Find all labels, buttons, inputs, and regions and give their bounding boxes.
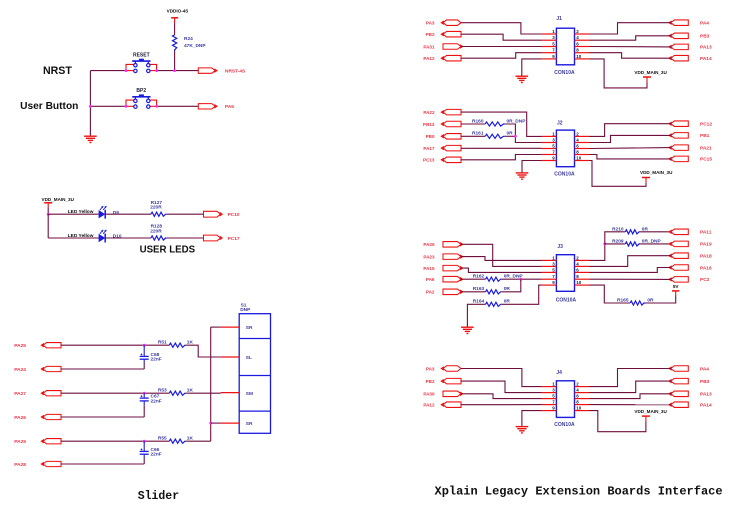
node C67 junction [143,392,146,395]
svg-text:SR: SR [246,325,253,331]
wire C68 to PA24 row [143,363,145,370]
connector J1 pins [542,29,590,59]
svg-text:PA4: PA4 [700,21,709,27]
power symbol 5V [672,284,679,296]
svg-text:PA17: PA17 [423,146,435,151]
svg-text:PA3: PA3 [426,21,435,26]
port PA20 [443,242,463,248]
wire R127 to PC10 [167,213,204,215]
wire PA3 to pin1 (J4) [461,369,542,387]
svg-text:PB13: PB13 [423,122,435,127]
wire PA25 row [61,344,169,346]
resistor R55 [158,436,194,444]
svg-text:PC10: PC10 [228,212,240,218]
node NRST junction [173,69,176,72]
wire pin4 to PB3 (J4) [590,381,671,393]
port PB0 [441,134,461,140]
wire pin9 to ground (J1) [522,59,542,76]
port PB13 [441,121,461,127]
wire pin9 to ground (J2) [522,161,542,173]
wire pin4 to PA18 [590,256,671,267]
connector J1 body [556,28,574,65]
svg-text:SR: SR [246,421,253,427]
resistor R210 [612,226,648,234]
wire pin8 to PA14 (J4) [590,404,671,406]
wire PC13 to pin7 [461,155,542,160]
port PA23 [443,254,463,260]
wire pin6 to PA16 [590,268,671,273]
slider S1 pin stubs [221,327,240,423]
connector J2 pins [542,131,590,160]
port PA12 [441,402,461,408]
svg-text:47K_DNP: 47K_DNP [184,43,206,49]
node user-button junction [89,105,92,108]
wire PB13 to R160 [461,123,485,125]
wire pin8 to PC2 [590,278,671,280]
svg-text:VDD_MAIN_3U: VDD_MAIN_3U [634,409,667,414]
svg-text:Slider: Slider [138,490,180,503]
svg-text:PA3: PA3 [426,366,435,371]
connector J4 pins [542,382,590,411]
svg-text:VDDIO-4S: VDDIO-4S [167,8,189,13]
svg-text:R53: R53 [158,388,167,394]
wire C66 to PA28 row [143,458,145,464]
port PA14 [669,55,688,61]
svg-text:PA16: PA16 [700,265,712,271]
resistor R163 [473,286,511,294]
port PB1 [669,133,688,139]
wire PA2 to R163 [461,291,486,293]
node SR junction [209,422,212,425]
wire left vertical to ground [89,71,91,137]
port PA27 [41,391,61,396]
svg-text:PA12: PA12 [423,403,435,408]
resistor R128 [150,224,167,241]
svg-text:R162: R162 [473,274,485,280]
svg-text:PA23: PA23 [423,254,435,259]
wire pin2 to PA4 [590,23,671,34]
port PB3 [669,378,688,384]
resistor R209 [612,238,661,246]
port PA16 [669,265,688,271]
node LED junction [47,213,50,216]
svg-text:22nF: 22nF [151,398,162,404]
wire PA23 to pin1 [461,257,542,261]
svg-text:SL: SL [246,355,252,361]
svg-text:PA13: PA13 [700,45,712,51]
wire PA12 to pin7 [461,53,542,59]
wire R161 to junction [505,135,516,137]
node C68 junction [143,344,146,347]
wire LED row 2 [48,237,98,239]
node R160/R161 junction [514,135,517,138]
svg-text:R164: R164 [473,299,485,305]
svg-text:PC12: PC12 [700,122,712,128]
wire PA27 row [61,392,169,394]
resistor R24 [173,35,207,51]
wire pin2 to PA4 (J4) [590,369,671,387]
svg-text:CON10A: CON10A [554,70,575,76]
connector J2 body [556,130,574,167]
wire PA3 to pin1 [461,23,542,34]
wire NRST row [90,70,126,72]
svg-text:PC13: PC13 [423,158,435,163]
port PA6 [443,276,463,282]
svg-text:PC2: PC2 [700,277,710,283]
port PA13 [669,44,688,50]
port PA21 [669,145,688,151]
port PB2 [441,31,461,37]
svg-text:PB3: PB3 [700,379,710,385]
port PA3 [441,20,461,26]
svg-text:PA31: PA31 [423,44,435,49]
ground NRST section [84,135,97,137]
port PA22 [441,109,461,115]
connector J3 body [556,255,574,292]
svg-text:PA4: PA4 [700,366,709,372]
port PC13 [441,157,461,163]
svg-text:LED Yellow: LED Yellow [68,209,94,215]
svg-text:PA29: PA29 [14,439,26,445]
push button RESET [126,52,157,72]
wire R164 to pin9 [502,285,542,304]
wire PA22 to pin1 [461,112,542,136]
svg-text:R163: R163 [473,286,485,292]
node C66 junction [143,440,146,443]
wire pin10 to VDD (J1) [590,59,648,88]
wire R55 to SR net [186,440,211,442]
svg-text:VDD_MAIN_3U: VDD_MAIN_3U [634,70,667,75]
wire PA12 to pin7 (J4) [461,404,542,406]
ground J2 [516,172,529,174]
connector J3 pins [542,255,590,285]
svg-text:R24: R24 [184,36,193,42]
svg-text:USER LEDS: USER LEDS [140,245,196,256]
wire pin6 to PA13 (J4) [590,394,671,399]
svg-text:PB2: PB2 [426,32,435,37]
wire PB2 to pin3 [461,34,542,40]
port PA26 [41,414,61,419]
connector J4 body [556,381,574,418]
wire LED vertical [47,214,49,238]
power symbol VDD_MAIN_3U (LEDs) [42,197,75,207]
wire PA24 row [61,368,144,370]
svg-text:BP2: BP2 [136,88,146,94]
svg-text:R55: R55 [158,436,167,442]
svg-text:10: 10 [576,156,582,161]
svg-text:PA22: PA22 [423,110,435,115]
resistor R162 [473,274,524,282]
push button BP2 [126,88,157,108]
svg-text:PA30: PA30 [423,392,435,397]
port PA2 [443,289,463,295]
wire ground to R164 [467,304,485,327]
wire PB0 to R161 [461,135,485,137]
svg-text:PA14: PA14 [700,56,712,62]
wire SR vertical [210,327,212,441]
junction dots RESET [125,69,128,72]
resistor R53 [158,388,194,396]
port NRST-4S [198,68,217,73]
wire R51 to SL [186,345,221,357]
svg-text:PA20: PA20 [423,242,435,247]
svg-text:D9: D9 [113,210,119,216]
wire VDDIO to R24 [174,23,176,35]
wire PA17 to pin5 [461,147,542,149]
port PA3 [441,366,461,372]
svg-text:PA11: PA11 [700,230,712,236]
wire pin6 to PA21 [590,147,671,150]
port PA12 [441,55,461,61]
svg-text:PB2: PB2 [426,379,435,384]
port PB3 [669,33,688,39]
wire pin4 to PB3 [590,36,671,40]
port PA28 [41,461,61,466]
wire junction to R209 [605,243,626,245]
wire PA6 to R162 [461,278,486,280]
svg-text:RESET: RESET [133,52,150,58]
slider S1 cell labels [246,325,253,427]
svg-text:User Button: User Button [20,101,78,112]
svg-text:PA18: PA18 [700,254,712,260]
resistor R127 [150,200,167,217]
port PA31 [443,44,463,50]
svg-text:Xplain Legacy Extension Boards: Xplain Legacy Extension Boards Interface [435,485,723,499]
svg-text:22nF: 22nF [151,452,162,458]
svg-text:PA2: PA2 [426,290,435,295]
svg-text:SM: SM [246,391,253,397]
resistor R165 [617,298,654,306]
resistor R160 [472,118,526,126]
svg-text:PA14: PA14 [700,403,712,409]
port PA24 [41,366,61,371]
svg-text:D10: D10 [113,234,122,240]
wire PA15 to pin5 [461,268,542,272]
power symbol VDD_MAIN_3U (J1) [634,70,667,82]
capacitor C66 [140,441,162,458]
svg-text:PB0: PB0 [426,134,435,139]
svg-text:LED Yellow: LED Yellow [68,233,94,239]
wire D9 to R127 [105,213,151,215]
wire R160 to junction [505,124,542,143]
resistor R164 [473,299,511,307]
port PA13 [669,391,688,397]
wire to SR top [211,326,221,328]
wire pin6 to PA13 [590,46,671,48]
svg-text:PB3: PB3 [700,34,710,40]
port PC15 [669,156,688,162]
wire PB2 to pin3 (J4) [461,381,542,393]
svg-text:NRST: NRST [43,65,72,77]
wire pin2 to PC12 [590,124,671,137]
port PA18 [669,253,688,259]
port PC2 [669,277,688,283]
svg-text:R165: R165 [617,298,629,304]
ground J1 [516,75,529,77]
ground J3 [461,326,474,328]
port PC17 [204,235,223,241]
capacitor C67 [140,393,162,406]
wire User Button row [90,105,126,107]
svg-text:VDD_MAIN_3U: VDD_MAIN_3U [640,170,673,175]
svg-text:R161: R161 [472,131,484,137]
resistor R161 [472,131,513,139]
wire R53 to SM [186,392,221,394]
svg-text:22nF: 22nF [151,357,162,363]
ground J4 [516,426,529,428]
LED D9 [99,206,107,219]
wire R163 to junction [502,279,521,292]
svg-text:PA28: PA28 [14,462,26,468]
wire pin8 to PC15 [590,155,671,159]
svg-text:PA25: PA25 [14,343,26,349]
svg-text:R209: R209 [612,238,624,244]
wire LED row 1 [48,213,98,215]
wire PA29 row [61,440,169,442]
wire pin10 to VDD (J4) [590,411,646,432]
port PA17 [441,145,461,151]
port PA15 [443,265,463,271]
port PA5 [198,104,217,109]
port PC12 [669,121,688,127]
svg-text:10: 10 [576,54,582,59]
svg-text:R210: R210 [612,226,624,232]
port PA11 [669,229,688,235]
wire PA28 row [61,463,144,465]
svg-text:J2: J2 [557,121,563,127]
svg-text:PA6: PA6 [426,277,435,282]
svg-text:J4: J4 [556,370,562,376]
wire R24 to NRST net [174,51,176,71]
port PA19 [669,241,688,247]
wire pin10 to R165 [590,285,631,303]
svg-text:220R: 220R [150,205,162,211]
svg-text:PA12: PA12 [423,56,435,61]
power symbol VDDIO-4S [167,8,189,23]
svg-text:PA15: PA15 [423,266,435,271]
wire pin2 to R209/R210 junction [590,244,605,261]
wire pin8 to PA14 [590,53,671,59]
svg-text:10: 10 [576,280,582,285]
capacitor C68 [140,345,162,363]
wire R209 to PA19 [640,243,671,245]
svg-text:PB1: PB1 [700,133,710,139]
svg-text:PA13: PA13 [700,392,712,398]
wire pin9 to ground (J4) [522,411,542,427]
wire R165 to 5V [645,296,676,304]
port PB2 [441,378,461,384]
node R209/R210 junction [603,243,606,246]
wire C67 to PA26 row [143,406,145,417]
svg-text:PA19: PA19 [700,242,712,248]
LED D10 [99,230,107,243]
svg-text:PA26: PA26 [14,415,26,421]
svg-text:R51: R51 [158,340,167,346]
wire D10 to R128 [105,237,151,239]
wire PA31 to pin5 [461,46,542,48]
port PA29 [41,439,61,444]
svg-text:PC17: PC17 [228,236,240,242]
port PA25 [41,343,61,348]
wire PA26 row [61,416,144,418]
wire junction to R210 [605,232,626,244]
wire pin10 to VDD (J2) [590,161,647,187]
wire PA20 to pin3 [461,244,542,266]
svg-text:J3: J3 [557,244,563,250]
slider S1 body [239,302,270,433]
svg-text:NRST-4S: NRST-4S [225,68,246,74]
svg-text:PA27: PA27 [14,391,26,397]
node R162/R163 junction [519,278,522,281]
wire pin4 to PB1 [590,135,671,142]
svg-text:VDD_MAIN_3U: VDD_MAIN_3U [42,197,75,202]
power symbol VDD_MAIN_3U (J4) [634,409,667,421]
wire R128 to PC17 [167,237,204,239]
svg-text:CON10A: CON10A [556,298,577,304]
wire R162 to pin7 [502,278,542,280]
svg-text:10: 10 [576,406,582,411]
port PA4 [669,366,688,372]
junction dots BP2 [125,105,128,108]
svg-text:DNP: DNP [240,307,251,313]
wire R210 to PA11 [640,231,671,233]
svg-text:PA5: PA5 [225,104,234,110]
port PA4 [669,20,688,26]
svg-text:CON10A: CON10A [554,422,575,428]
resistor R51 [158,340,194,348]
port PA14 [669,402,688,408]
svg-text:R160: R160 [472,118,484,124]
svg-text:PA24: PA24 [14,367,26,373]
power symbol VDD_MAIN_3U (J2) [640,170,673,183]
svg-text:PC15: PC15 [700,157,712,163]
port PA30 [443,391,463,397]
svg-text:PA21: PA21 [700,145,712,151]
wire to SR bottom [211,422,221,424]
svg-text:5V: 5V [673,284,680,289]
port PC10 [204,211,223,217]
wire PA30 to pin5 (J4) [461,394,542,399]
svg-text:220R: 220R [150,228,162,234]
svg-text:CON10A: CON10A [554,171,575,177]
wire VDD to LED row 1 [47,207,49,214]
svg-text:J1: J1 [556,16,562,22]
